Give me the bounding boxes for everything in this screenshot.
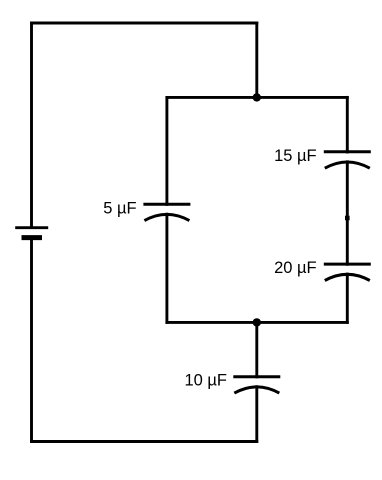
capacitor C3 20 uF <box>324 264 371 280</box>
capacitor C1 5 uF <box>143 204 190 220</box>
wire battery positive up left side <box>30 23 33 227</box>
wire right branch down to C2 <box>346 97 349 152</box>
wire C2 to C3 upper segment <box>346 162 349 218</box>
wire top horizontal <box>32 22 257 25</box>
wire C3 down to bottom rail <box>346 274 349 322</box>
wire C1 down to bottom rail <box>165 214 168 322</box>
wire C4 down to bottom wire <box>255 387 258 442</box>
wire left branch down to C1 <box>165 97 168 204</box>
junction square on right branch <box>345 216 350 221</box>
wire top down to node A <box>255 23 258 97</box>
battery V1 <box>15 228 48 238</box>
wire C2 to C3 lower segment <box>346 218 349 264</box>
node A (top junction) <box>253 93 261 101</box>
wire node B down to C4 <box>255 322 258 377</box>
wire bottom rail right part <box>257 321 348 324</box>
wire bottom horizontal <box>32 440 257 443</box>
wire node A to left branch <box>167 96 257 99</box>
wire bottom-left up to battery negative <box>30 239 33 442</box>
svg-text:10 µF: 10 µF <box>184 372 227 390</box>
capacitor C4 10 uF <box>233 377 280 393</box>
svg-text:15 µF: 15 µF <box>274 147 317 165</box>
svg-text:5 µF: 5 µF <box>103 199 136 217</box>
node B (bottom junction) <box>253 318 261 326</box>
wire bottom rail left part <box>167 321 257 324</box>
capacitor C2 15 uF <box>324 152 371 168</box>
svg-text:20 µF: 20 µF <box>274 259 317 277</box>
wire node A to right branch <box>257 96 348 99</box>
